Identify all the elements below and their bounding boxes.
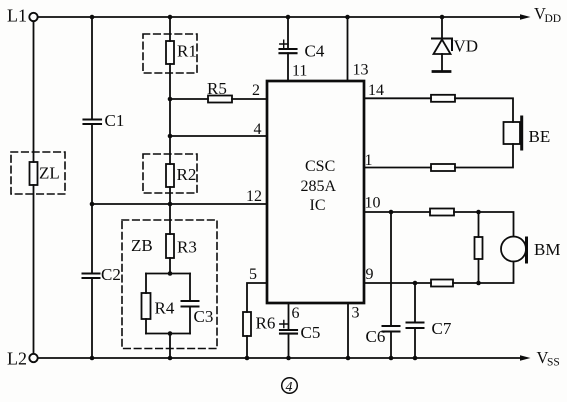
microphone BM (501, 237, 560, 263)
terminal L1 (29, 13, 37, 21)
svg-text:C2: C2 (101, 265, 121, 284)
wire C2 to bottom rail (91, 278, 93, 358)
wire C7 to bottom rail (414, 328, 416, 358)
resistor (BM shunt) (475, 237, 483, 259)
junction dot bottom rail at R6 (245, 356, 250, 361)
resistor R4 (142, 293, 175, 319)
wire R5 to pin 2 (232, 98, 267, 100)
junction dot bottom rail at pin3 (346, 356, 351, 361)
svg-text:DD: DD (545, 13, 562, 25)
wire loop right lower (189, 307, 191, 334)
svg-text:9: 9 (366, 266, 374, 283)
capacitor C3 (182, 301, 214, 326)
svg-text:ZL: ZL (39, 164, 60, 183)
zener diode VD (432, 37, 478, 72)
wire pin 12 (92, 203, 267, 205)
wire pin 11 from top rail (287, 17, 289, 49)
VDD arrow head (520, 14, 531, 20)
svg-text:5: 5 (249, 266, 257, 283)
svg-text:R6: R6 (256, 314, 276, 333)
VSS arrow head (520, 355, 531, 361)
svg-text:IC: IC (310, 197, 326, 214)
wire pin 14 (364, 97, 431, 99)
svg-text:BE: BE (529, 127, 551, 146)
junction dot pin2 wire (168, 97, 173, 102)
svg-text:3: 3 (352, 305, 360, 322)
svg-text:14: 14 (368, 82, 384, 99)
wire left rail L1 to ZL (33, 21, 35, 162)
wire C6 to bottom rail (390, 332, 392, 359)
svg-text:R5: R5 (207, 79, 227, 98)
wire loop to bottom rail (169, 334, 171, 359)
svg-text:C7: C7 (432, 319, 452, 338)
wire loop right upper (189, 274, 191, 302)
wire C4 to pin 11 (287, 53, 289, 81)
svg-text:R3: R3 (177, 238, 197, 257)
svg-text:C3: C3 (194, 307, 214, 326)
wire R6 to bottom rail (246, 336, 248, 358)
svg-text:4: 4 (254, 121, 262, 138)
wire pin 5 (247, 283, 267, 312)
wire pin 4 (170, 135, 267, 137)
svg-text:R1: R1 (177, 42, 197, 61)
resistor (BE bottom) (431, 164, 455, 171)
resistor R1 (166, 41, 197, 64)
wire loop top (146, 273, 190, 275)
capacitor C6 (366, 326, 400, 346)
wire R1 column from top rail (169, 17, 171, 41)
junction dot bottom rail at ZB (168, 356, 173, 361)
svg-text:R2: R2 (177, 165, 197, 184)
svg-text:10: 10 (365, 195, 381, 212)
figure number 4 circled (282, 378, 298, 395)
junction dot bottom rail at C5 (286, 356, 291, 361)
wire shunt resistor bottom (478, 259, 480, 283)
wire R2 to R3 (169, 187, 171, 234)
junction dot bottom rail at C2 (90, 356, 95, 361)
svg-text:6: 6 (292, 305, 300, 322)
svg-text:1: 1 (365, 152, 373, 169)
resistor R5 (207, 79, 232, 103)
wire loop bottom (146, 333, 190, 335)
IC U1 label CSC 285A IC (301, 158, 337, 214)
net VSS label (537, 348, 560, 369)
wire pin 13 from top rail (347, 17, 349, 81)
svg-text:CSC: CSC (305, 158, 335, 175)
svg-text:C6: C6 (366, 327, 386, 346)
wire C1 column top (91, 17, 93, 120)
svg-text:12: 12 (246, 188, 262, 205)
junction dot top rail at pin13 (345, 15, 350, 20)
wire top rail VDD (38, 16, 522, 18)
wire C7 column (414, 283, 416, 323)
junction dot top rail at VD (440, 15, 445, 20)
dashed box ZB (122, 220, 217, 349)
junction dot top rail at pin11 (286, 15, 291, 20)
svg-text:13: 13 (353, 62, 369, 79)
junction dot top rail at C1 (90, 15, 95, 20)
svg-text:C5: C5 (301, 323, 321, 342)
svg-text:2: 2 (252, 82, 260, 99)
capacitor C2 (83, 265, 121, 284)
wire pin 3 to bottom rail (347, 303, 349, 358)
wire ZL to L2 (33, 185, 35, 354)
wire BM to pin 9 (453, 262, 514, 284)
wire resistor to pin 1 (364, 167, 431, 169)
svg-text:ZB: ZB (131, 236, 153, 255)
capacitor C5 polarized (280, 320, 321, 342)
junction dot loop top (168, 271, 173, 276)
resistor R6 (243, 312, 275, 336)
junction dot bottom rail at C7 (413, 356, 418, 361)
junction dot bottom rail at C6 (389, 356, 394, 361)
svg-text:4: 4 (286, 380, 293, 395)
junction dot pin10 at C6 column (389, 210, 394, 215)
dashed box around ZL (11, 152, 65, 194)
wire shunt resistor top (478, 212, 480, 237)
wire resistor to BM corner (454, 212, 514, 237)
junction dot pin12 at C column (90, 202, 95, 207)
resistor R2 (166, 164, 196, 187)
junction dot pin10 at shunt resistor (476, 210, 481, 215)
resistor (BM top) (430, 209, 454, 216)
svg-text:L1: L1 (7, 6, 27, 26)
wire resistor to pin 9 (364, 282, 431, 284)
wire R3 to parallel loop (169, 258, 171, 274)
wire C5 to bottom rail (288, 334, 290, 358)
wire VD from top rail (441, 17, 443, 39)
junction dot top rail at R1 (168, 15, 173, 20)
svg-text:285A: 285A (301, 178, 337, 195)
dashed box around R2 (143, 154, 197, 193)
junction dot loop bottom (168, 331, 173, 336)
wire C6 column (390, 212, 392, 326)
resistor (BE top) (431, 95, 455, 102)
svg-text:BM: BM (534, 240, 560, 259)
wire BE to resistor (455, 144, 513, 168)
resistor R3 (166, 234, 197, 258)
svg-text:L2: L2 (7, 349, 27, 369)
junction dot pin4 wire (168, 134, 173, 139)
svg-text:R4: R4 (155, 299, 175, 318)
capacitor C1 (84, 111, 125, 130)
wire resistor to BE (455, 98, 513, 122)
wire bottom rail VSS (38, 357, 522, 359)
IC U1 body (267, 81, 364, 303)
capacitor C4 polarized (280, 40, 325, 60)
junction dot pin9 at shunt resistor (476, 281, 481, 286)
svg-text:C1: C1 (105, 111, 125, 130)
wire pin 6 to C5 (288, 303, 290, 330)
wire pin 2 (170, 98, 208, 100)
terminal L2 (29, 354, 37, 362)
net VDD label (534, 4, 561, 25)
capacitor C7 (407, 319, 452, 338)
wire C1 to C2 (91, 124, 93, 274)
wire R1 to R2 (169, 64, 171, 164)
junction dot pin9 at C7 (413, 281, 418, 286)
wire loop left upper (145, 274, 147, 294)
svg-text:SS: SS (547, 357, 560, 369)
buzzer BE (504, 117, 551, 149)
svg-text:C4: C4 (305, 42, 325, 61)
wire pin 10 (364, 211, 430, 213)
svg-text:11: 11 (292, 63, 307, 80)
junction dot pin12 at R column (168, 202, 173, 207)
resistor ZL (30, 162, 60, 185)
svg-text:VD: VD (454, 37, 479, 56)
wire loop left lower (145, 319, 147, 334)
resistor (pin 9) (431, 280, 453, 287)
dashed box around R1 (143, 34, 197, 73)
